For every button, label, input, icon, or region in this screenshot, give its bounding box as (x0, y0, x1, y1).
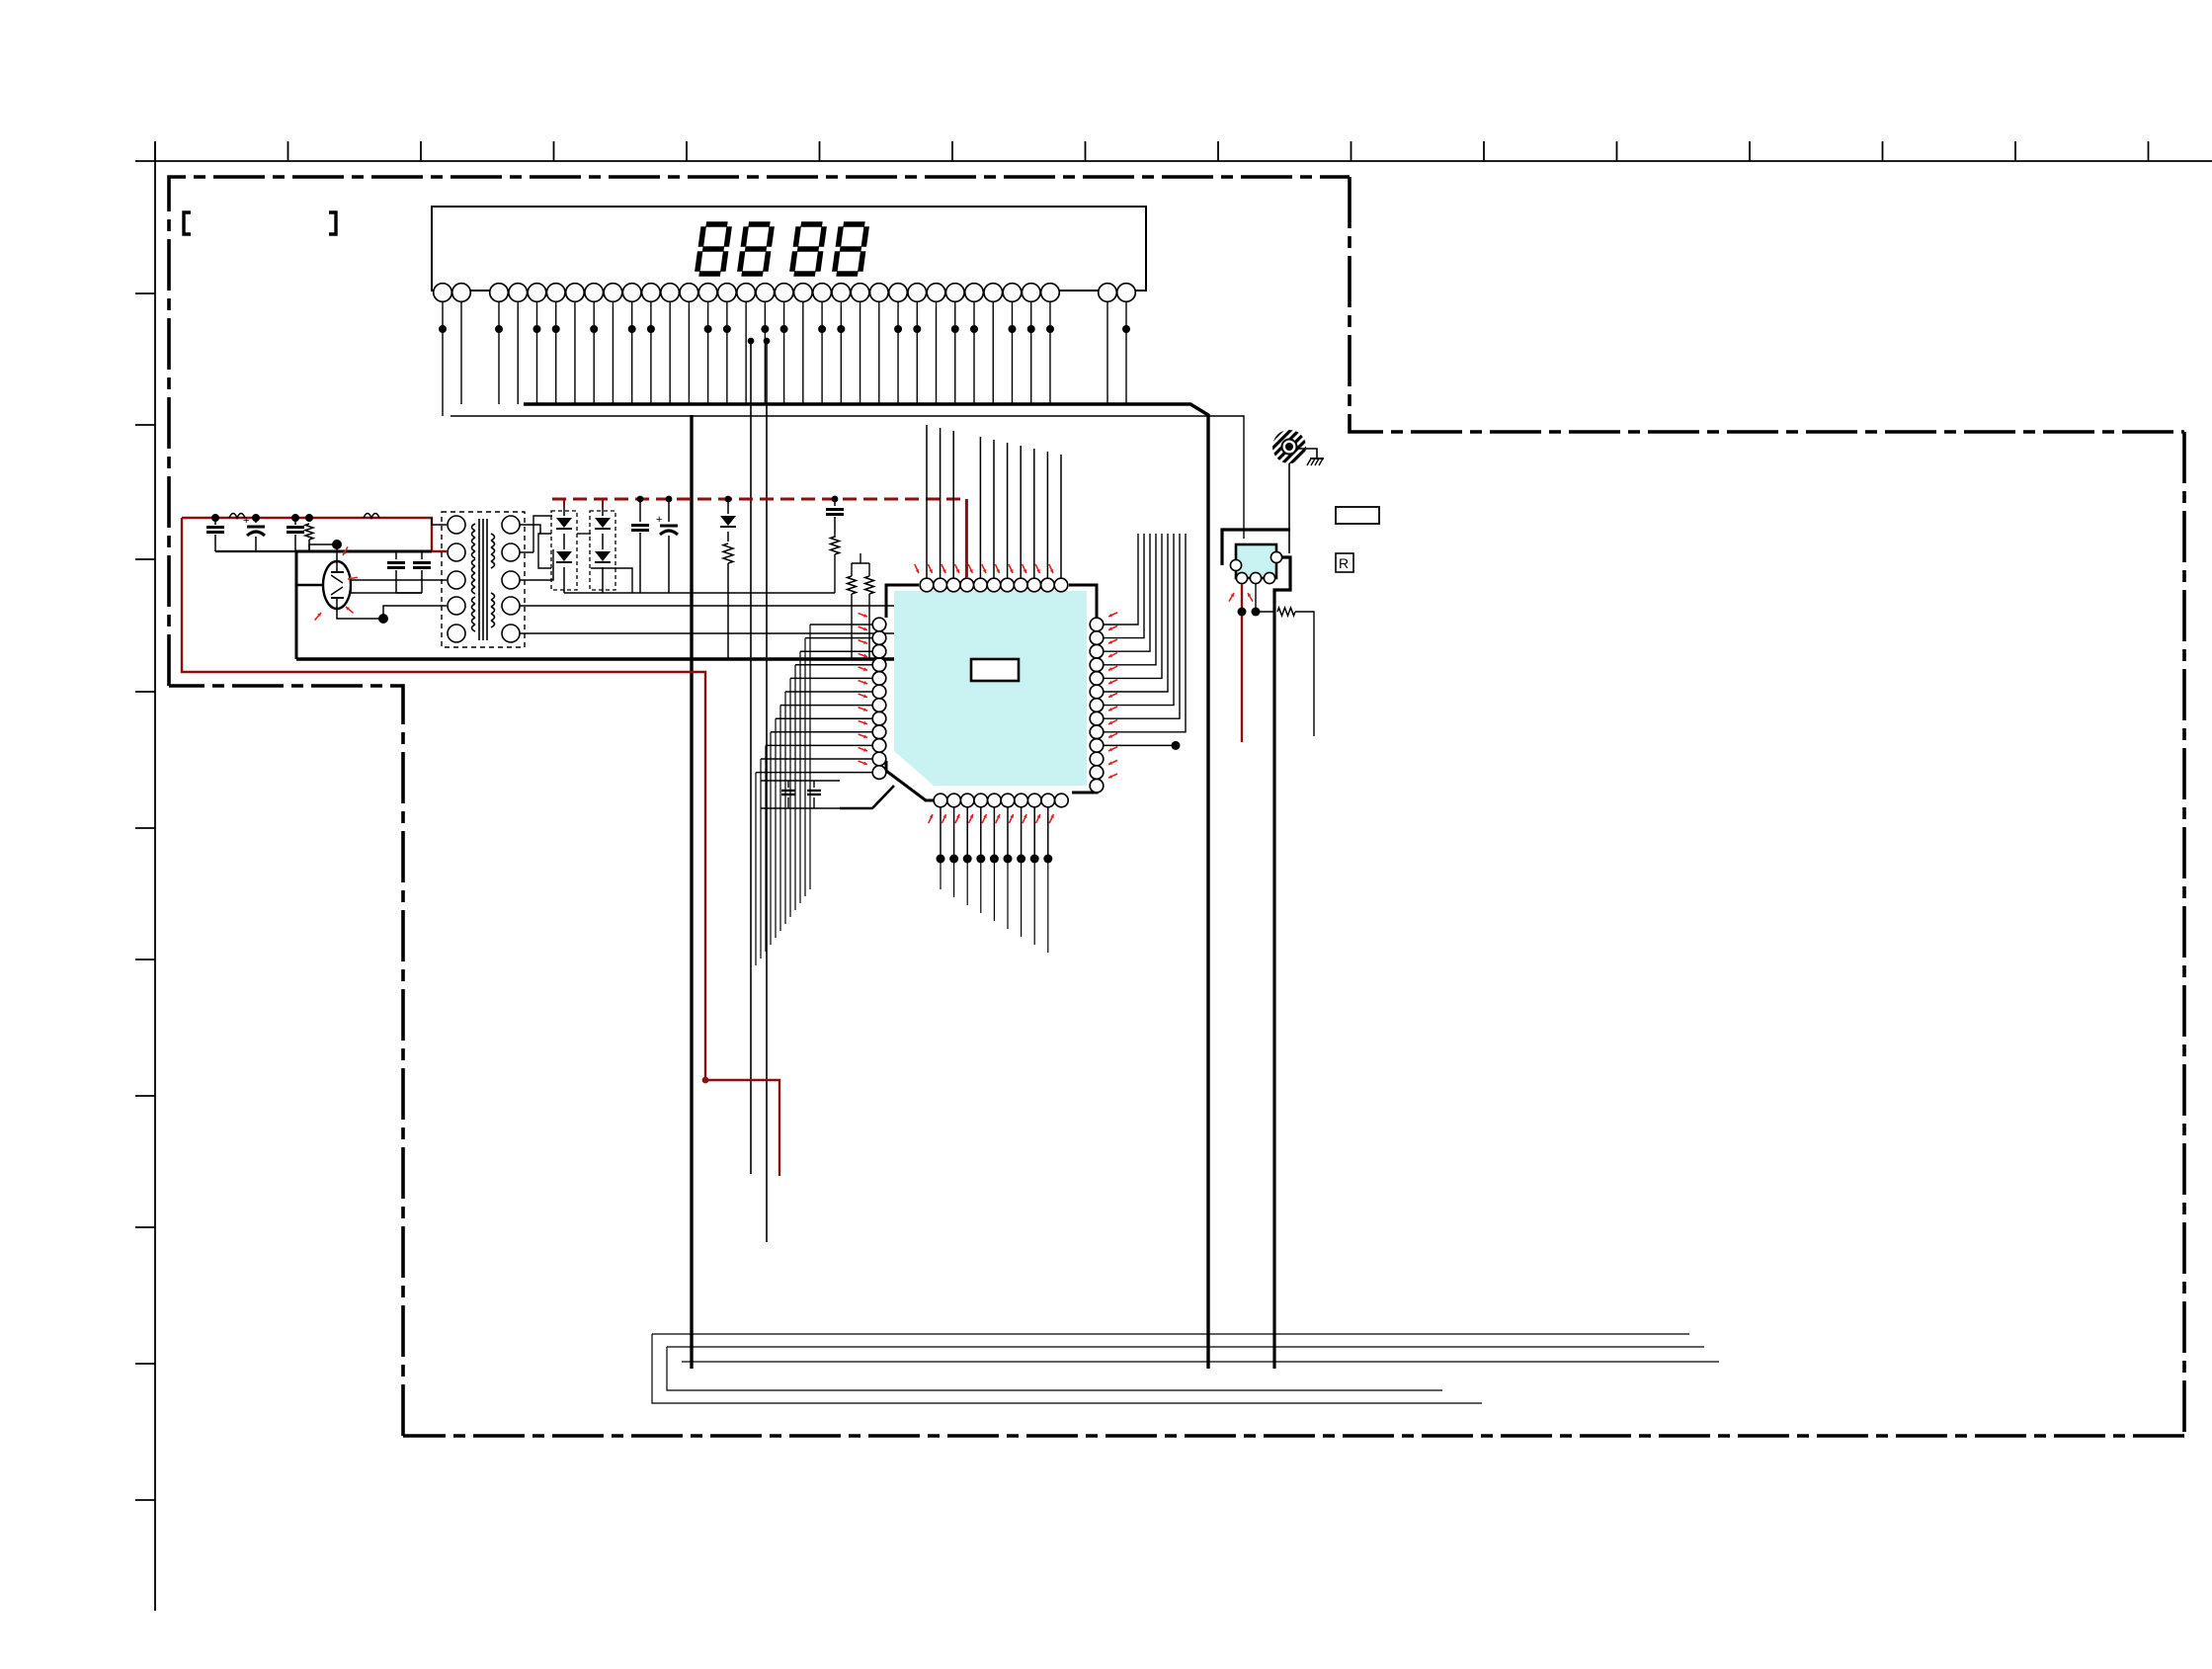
IC1 top pin wires (926, 425, 928, 578)
transistor Q1 (oval pair) (323, 561, 351, 609)
label box mid (1336, 507, 1379, 524)
IC1 QFP body (894, 591, 1087, 786)
IC2 loop heavy (1222, 530, 1290, 565)
ecap C2 (255, 518, 257, 523)
wire caps bottom (396, 592, 422, 594)
ac inductor L2 (364, 514, 379, 519)
board outline (dash-dot) bottom (403, 1434, 2184, 1438)
display pin row (434, 284, 452, 302)
IC2 red out (1241, 584, 1243, 742)
sheet tick marks left (135, 292, 155, 294)
IC1 right pin wires (1104, 534, 1138, 625)
ac bottom wire2 (295, 550, 432, 553)
res R1 (308, 518, 310, 522)
sheet frame top rule (135, 160, 2212, 162)
IC1 right pins (1090, 618, 1104, 631)
rect wire h (577, 533, 591, 535)
board outline (dash-dot) right upper (1350, 177, 2184, 432)
red to IC6 pin2 (705, 1080, 779, 1176)
display module outline (432, 207, 1146, 291)
wire qfp left low (761, 780, 840, 782)
IC2 marks (1231, 593, 1234, 597)
Q1 collector wire (336, 544, 338, 561)
junction red (702, 1077, 709, 1084)
svg-text:+: + (243, 515, 249, 527)
sheet frame left rule (154, 141, 156, 1611)
red rail drop to QFP (965, 499, 967, 585)
ac bottom wire (215, 550, 309, 552)
sheet tick marks top (154, 141, 156, 161)
label bracket right (329, 212, 336, 234)
IC1 left pin wires (810, 624, 872, 626)
display bus line (451, 416, 1244, 539)
board outline (dash-dot) lower left (169, 686, 403, 1436)
cap C3 (294, 518, 296, 525)
IC1 right pin wire10 (1104, 744, 1176, 746)
junction dots ac (211, 514, 219, 522)
transformer T1 dashed box (442, 512, 525, 647)
display bus heavy (524, 404, 1208, 1369)
IC2 pins (1230, 559, 1241, 570)
wire display-to-IC6 a (750, 341, 752, 1174)
svg-text:R: R (1339, 555, 1349, 571)
wire emitter to pin4 (383, 606, 447, 619)
IC1 pin marks (916, 569, 919, 573)
display wire fan (442, 301, 444, 416)
cap C12 (834, 499, 836, 506)
res under zener (723, 543, 733, 563)
ecap C11 (668, 499, 670, 522)
R-mark box (1336, 553, 1353, 572)
display bus thin (442, 415, 444, 417)
xfmr pin1 wire (432, 518, 447, 525)
thick vert to gnd bus (295, 551, 298, 659)
wire to pin3 (351, 580, 447, 593)
transformer core+windings (478, 519, 480, 640)
junction (748, 338, 755, 345)
cap C20 (787, 781, 789, 788)
bridge diodes x610 (590, 511, 615, 590)
IC1 left pins (872, 618, 886, 631)
zener D3 (727, 499, 729, 514)
wires rect bottom (564, 592, 669, 594)
seven-segment digit 2 (748, 221, 770, 227)
svg-text:+: + (656, 514, 662, 526)
red dashed rail (552, 498, 966, 501)
wire sec to loads (552, 549, 554, 563)
cap C1 (214, 518, 216, 525)
bridge diodes x571 (551, 511, 577, 590)
IC2 body (1236, 544, 1276, 578)
IC1 bottom pin wires (940, 807, 942, 859)
seven-segment digit 3 (800, 221, 822, 227)
cap C21 (813, 781, 815, 788)
IC1 top pins (920, 578, 934, 592)
qfp lower left heavy (840, 786, 894, 808)
gnd wire (1288, 463, 1290, 553)
wire q1 top (309, 544, 337, 551)
wire mid h (669, 592, 835, 594)
wire display-to-IC6 b (766, 341, 768, 1242)
loop wires bottom (652, 1333, 1689, 1335)
ac line top wire (211, 517, 432, 519)
red bottom loop (182, 518, 705, 1080)
IC1 left pin drops (809, 625, 811, 889)
IC1 bottom pins (934, 793, 947, 807)
IC2 right heavy (1274, 557, 1290, 1369)
Q1 emitter wire (337, 609, 383, 619)
board outline (dash-dot) (169, 177, 1350, 686)
caps near xfmr (395, 551, 397, 559)
res right of IC2 (1256, 611, 1274, 613)
seven-segment digit 4 (843, 221, 864, 227)
vert 700 heavy (690, 415, 693, 1369)
Q1 base wire (296, 584, 323, 587)
wire load h2 (852, 562, 869, 564)
res bank (831, 537, 840, 554)
board outline (dash-dot) right side (2182, 432, 2186, 1436)
IC1 label box (971, 659, 1019, 681)
IC2 mid pin wire (1255, 584, 1257, 612)
red ac overlay (182, 518, 447, 551)
xfmr sec wires (520, 525, 540, 534)
seven-segment digit 1 (705, 221, 727, 227)
ac inductor L1 (229, 514, 245, 519)
transformer pins (448, 516, 465, 534)
cap C10 (639, 499, 641, 522)
gnd bus heavy (296, 657, 1027, 660)
loop wires bottom2 (652, 1334, 1482, 1403)
IC1 outline (886, 585, 919, 618)
label bracket left (184, 212, 191, 234)
